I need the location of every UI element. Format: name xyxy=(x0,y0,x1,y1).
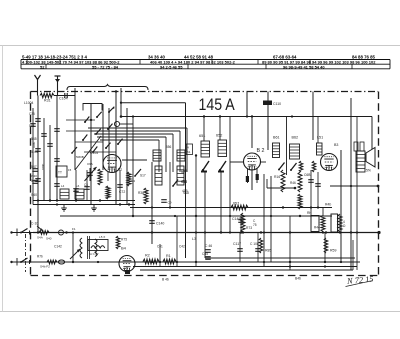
svg-text:R46: R46 xyxy=(290,181,296,185)
svg-text:R7b: R7b xyxy=(37,255,43,259)
svg-text:145 A: 145 A xyxy=(199,96,236,114)
svg-text:L5 X: L5 X xyxy=(99,235,105,239)
svg-text:B 2: B 2 xyxy=(257,148,265,154)
svg-text:S4b F2: S4b F2 xyxy=(40,265,50,269)
svg-text:5%: 5% xyxy=(366,169,371,173)
svg-text:C42: C42 xyxy=(179,245,185,249)
svg-text:R73: R73 xyxy=(246,226,252,230)
svg-text:4: 4 xyxy=(187,146,189,150)
svg-text:B61: B61 xyxy=(273,136,280,140)
svg-text:52: 52 xyxy=(40,64,45,69)
svg-text:S40: S40 xyxy=(46,237,52,241)
svg-text:R4b: R4b xyxy=(325,203,331,207)
svg-text:556: 556 xyxy=(166,145,172,149)
svg-text:R31: R31 xyxy=(44,99,51,103)
svg-text:C140: C140 xyxy=(156,222,164,226)
svg-text:M-Y-5Y: M-Y-5Y xyxy=(89,252,99,256)
svg-text:R16: R16 xyxy=(274,175,280,179)
svg-text:C57: C57 xyxy=(181,169,187,173)
svg-text:B4: B4 xyxy=(121,246,127,251)
svg-text:51: 51 xyxy=(187,150,191,154)
svg-text:545: 545 xyxy=(29,124,35,128)
svg-text:545: 545 xyxy=(31,137,37,141)
svg-text:C72: C72 xyxy=(119,190,125,194)
svg-text:6920: 6920 xyxy=(31,174,38,178)
svg-text:C6B: C6B xyxy=(304,173,311,177)
svg-text:R3A: R3A xyxy=(138,191,145,195)
svg-text:C58: C58 xyxy=(181,180,187,184)
svg-text:R4: R4 xyxy=(131,179,135,183)
svg-text:TT: TT xyxy=(58,171,62,175)
svg-text:R85: R85 xyxy=(265,249,271,253)
svg-text:15: 15 xyxy=(68,168,72,172)
svg-text:L6: L6 xyxy=(76,184,80,188)
svg-text:S18: S18 xyxy=(183,191,189,195)
svg-text:651: 651 xyxy=(199,134,205,138)
svg-text:C142: C142 xyxy=(54,245,62,249)
svg-text:C 46: C 46 xyxy=(205,244,212,248)
svg-text:B 46: B 46 xyxy=(162,278,169,282)
svg-text:L3: L3 xyxy=(192,237,196,241)
svg-text:F1: F1 xyxy=(72,227,76,231)
svg-text:96 98-9-49 41 58 54 40: 96 98-9-49 41 58 54 40 xyxy=(283,64,325,69)
svg-text:R44: R44 xyxy=(314,226,320,230)
svg-text:C110: C110 xyxy=(273,102,281,106)
svg-text:R59: R59 xyxy=(330,249,336,253)
svg-text:L1004: L1004 xyxy=(24,101,34,105)
svg-text:5M0B: 5M0B xyxy=(76,155,84,159)
svg-text:55 - 72 75 - 84: 55 - 72 75 - 84 xyxy=(92,64,119,69)
svg-text:C35: C35 xyxy=(29,112,35,116)
svg-text:5-43: 5-43 xyxy=(31,150,38,154)
svg-text:0280: 0280 xyxy=(32,141,36,148)
svg-text:C104: C104 xyxy=(59,97,68,101)
svg-text:R75: R75 xyxy=(121,238,127,242)
svg-text:L4: L4 xyxy=(61,184,65,188)
svg-text:B46: B46 xyxy=(295,277,301,281)
svg-text:94 2-5 46 55: 94 2-5 46 55 xyxy=(160,64,183,69)
svg-text:S17: S17 xyxy=(140,174,146,178)
svg-text:C-10: C-10 xyxy=(31,222,38,226)
svg-text:R1: R1 xyxy=(166,254,171,258)
svg-text:652: 652 xyxy=(216,134,222,138)
svg-text:C149: C149 xyxy=(232,217,240,221)
svg-text:C105: C105 xyxy=(90,151,98,155)
svg-text:75: 75 xyxy=(253,223,257,227)
svg-text:C9Δ: C9Δ xyxy=(87,162,93,166)
svg-text:R2: R2 xyxy=(145,254,150,258)
svg-text:C45: C45 xyxy=(202,252,208,256)
svg-text:S4A: S4A xyxy=(37,236,44,240)
svg-text:C41: C41 xyxy=(157,245,163,249)
svg-text:B62: B62 xyxy=(292,136,299,140)
svg-text:B3: B3 xyxy=(334,143,338,147)
svg-text:0280: 0280 xyxy=(41,163,45,170)
svg-text:S40: S40 xyxy=(31,193,37,197)
